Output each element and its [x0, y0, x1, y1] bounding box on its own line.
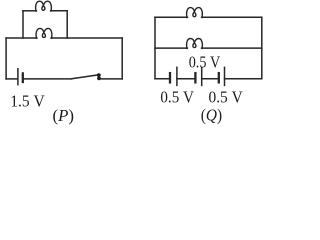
wire: Q bottom segment B1-B2 [177, 78, 195, 80]
cell B1 0.5V short plate [169, 73, 171, 82]
svg-text:0.5 V: 0.5 V [189, 53, 221, 72]
wire: P outer right edge [121, 38, 123, 79]
wire: Q bottom segment B2-B3 [202, 78, 218, 80]
cell B2 0.5V long plate [201, 67, 203, 85]
svg-text:0.5 V: 0.5 V [209, 88, 244, 107]
wire: P bottom right segment [99, 78, 122, 80]
wire: Q right edge [261, 17, 263, 78]
battery cell 1.5V short plate [22, 73, 24, 82]
wire: P bottom left segment to battery [6, 78, 17, 80]
wire: P outer left edge [5, 38, 7, 79]
wire: P branch top edge left segment [23, 10, 36, 12]
lamp L4 on Q middle wire [187, 39, 203, 49]
cell B3 0.5V long plate [224, 67, 226, 85]
cell B1 0.5V long plate [176, 67, 178, 85]
wire: Q top edge left segment [155, 16, 187, 18]
switch terminal dot [97, 77, 101, 81]
wire: Q middle wire left segment [155, 47, 187, 49]
wire: P branch top edge right segment [51, 10, 68, 12]
wire: Q middle wire right segment [202, 47, 262, 49]
wire: Q left edge [154, 17, 156, 78]
wire: Q bottom left segment [155, 78, 169, 80]
lamp L3 on Q top edge [187, 8, 203, 18]
cell B3 0.5V short plate [218, 73, 220, 82]
battery cell 1.5V long plate [17, 69, 19, 85]
switch blade tip dot [97, 73, 101, 77]
lamp L2 on P outer top edge [36, 28, 52, 38]
wire: P branch right leg [66, 11, 68, 38]
svg-text:(P): (P) [53, 106, 75, 125]
svg-text:1.5 V: 1.5 V [10, 92, 45, 111]
lamp L1 on P branch top edge [36, 1, 52, 11]
wire: Q bottom right segment [225, 78, 262, 80]
wire: P bottom segment battery to switch [24, 78, 72, 80]
wire: P outer top edge left segment [6, 37, 37, 39]
wire: Q top edge right segment [202, 16, 262, 18]
cell B2 0.5V short plate [194, 73, 196, 82]
svg-text:0.5 V: 0.5 V [160, 88, 194, 107]
switch blade (open) [72, 75, 99, 79]
svg-text:(Q): (Q) [201, 105, 222, 124]
wire: P branch left leg [22, 11, 24, 38]
wire: P outer top edge right segment [51, 37, 122, 39]
